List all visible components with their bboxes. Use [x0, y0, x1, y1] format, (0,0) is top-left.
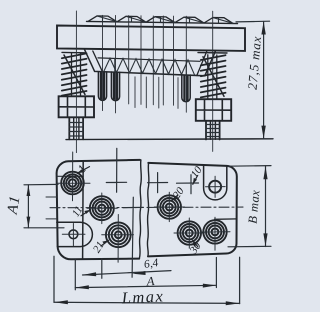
boss around mounting hole 10, right	[204, 166, 227, 200]
mounting hole, left	[62, 224, 85, 246]
socket body (side view rectangle)	[57, 26, 245, 51]
relay cover truss strip on top of body	[87, 16, 238, 24]
break line, left half	[139, 160, 141, 259]
label 11	[70, 204, 91, 219]
position cross 4	[177, 175, 199, 194]
mounting hole 10, right	[206, 176, 226, 197]
plate, left half outline	[57, 160, 140, 259]
svg-text:Lmax: Lmax	[120, 286, 165, 307]
dimension L max	[54, 256, 240, 307]
horizontal centre line of plate	[50, 206, 243, 209]
dimension 6,4	[83, 257, 172, 278]
left threaded stud	[69, 117, 83, 139]
axis centre line, left screw	[75, 11, 77, 153]
step ledge, right half	[215, 218, 237, 220]
dimension A1	[5, 184, 64, 227]
right clamp nut	[196, 99, 231, 121]
contact 20	[154, 192, 184, 221]
contact 30a	[174, 218, 204, 248]
svg-text:6,4: 6,4	[143, 257, 159, 271]
label 20	[171, 185, 187, 201]
right threaded stud	[206, 121, 220, 140]
left spring (coil hatch)	[62, 53, 87, 96]
pin/contact centre lines	[103, 15, 187, 113]
left spring seat	[62, 51, 86, 53]
step ledge, left half	[57, 175, 83, 177]
relay pin 1 (left pair)	[98, 72, 106, 101]
contact 21	[102, 215, 134, 263]
position cross 2	[123, 197, 143, 277]
dimension A	[75, 258, 216, 290]
label 30	[187, 240, 204, 257]
break line, right half	[147, 163, 149, 257]
relay pin 2 (left pair)	[111, 72, 119, 101]
lower body chamfered block with truss	[84, 49, 215, 76]
position cross 1	[106, 148, 126, 192]
right spring (coil hatch)	[201, 55, 226, 99]
position cross 3	[148, 173, 168, 193]
svg-text:В max: В max	[246, 189, 263, 224]
label 21	[91, 239, 109, 255]
label 1	[75, 162, 90, 176]
contact 1	[58, 152, 91, 201]
left clamp nut	[59, 96, 94, 117]
axis centre line, right screw	[212, 11, 214, 151]
label 10	[189, 164, 205, 184]
relay pin 3 (right)	[182, 75, 190, 102]
plate, right half outline	[148, 163, 237, 257]
dimension B max	[228, 166, 271, 247]
svg-text:А1: А1	[5, 194, 24, 216]
inner step line, left half	[82, 161, 85, 259]
boss around mounting hole, left	[57, 222, 93, 246]
mounting panel line	[66, 138, 273, 141]
contact 11	[87, 193, 117, 224]
contact 30b	[200, 217, 230, 250]
dimension 27,5 max	[236, 21, 270, 139]
right spring seat	[198, 52, 227, 54]
